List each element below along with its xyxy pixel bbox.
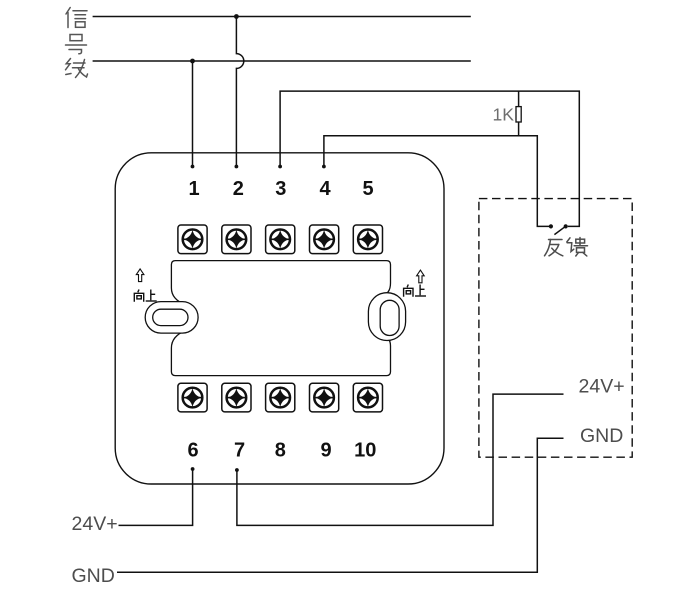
- svg-text:10: 10: [354, 440, 376, 462]
- junction S1/terminal2: [234, 14, 239, 19]
- svg-text:3: 3: [275, 178, 286, 200]
- svg-text:1K: 1K: [493, 104, 515, 124]
- switch contact left: [549, 224, 553, 228]
- wire signal line S2: [93, 60, 471, 62]
- terminal screw 9: [310, 383, 339, 412]
- terminal screw 5: [353, 225, 382, 254]
- terminal screw 3: [266, 225, 295, 254]
- terminal screw 7: [222, 383, 251, 412]
- terminal screw 4: [310, 225, 339, 254]
- label 反: [545, 240, 563, 256]
- dashed enclosure (monitored device): [479, 199, 632, 458]
- label 向上 (left): [134, 290, 156, 302]
- svg-text:7: 7: [234, 440, 245, 462]
- arrow up (right): [417, 270, 425, 283]
- svg-text:6: 6: [187, 440, 198, 462]
- module outline: [115, 153, 444, 484]
- svg-text:9: 9: [320, 440, 331, 462]
- mounting plate outline (top part): [171, 261, 390, 288]
- label 信 (signal): [66, 8, 87, 28]
- svg-text:24V+: 24V+: [72, 513, 118, 535]
- terminal screw 1: [178, 225, 207, 254]
- svg-text:5: 5: [362, 178, 373, 200]
- wire terminal3 to switch right: [280, 91, 579, 226]
- arrow up (left): [136, 269, 144, 282]
- switch blade: [554, 227, 564, 234]
- mounting slot right (inner): [380, 300, 399, 335]
- label 馈: [567, 238, 588, 257]
- svg-text:GND: GND: [72, 565, 115, 587]
- wire terminal2 to S1 (hop over S2): [236, 17, 243, 167]
- svg-text:8: 8: [275, 440, 286, 462]
- mounting slot right (outer): [368, 293, 405, 341]
- svg-text:24V+: 24V+: [579, 375, 625, 397]
- mounting slot left (outer): [145, 302, 198, 334]
- svg-text:1: 1: [188, 178, 199, 200]
- resistor R 1K: [518, 91, 520, 107]
- terminal screw 8: [266, 383, 295, 412]
- terminal screw 6: [178, 383, 207, 412]
- label 向上 (right): [404, 285, 426, 297]
- wire terminal1 to S2: [192, 61, 194, 167]
- wire terminal4 to switch left: [324, 136, 549, 227]
- mounting plate outline (bottom part): [171, 346, 390, 376]
- plate S-curve joins right: [382, 283, 391, 297]
- svg-text:2: 2: [233, 178, 244, 200]
- wire 24V+ (bottom) to terminal6: [119, 469, 193, 525]
- terminal screw 10: [353, 383, 382, 412]
- svg-text:4: 4: [319, 178, 331, 200]
- junction S2/terminal1: [190, 59, 195, 64]
- svg-text:GND: GND: [580, 425, 623, 447]
- mounting slot left (inner): [153, 309, 188, 325]
- label 线: [66, 59, 88, 78]
- wire GND stub to bottom GND: [117, 438, 564, 572]
- wire 24V+ stub to terminal7: [237, 394, 564, 525]
- switch contact right: [564, 224, 568, 228]
- wire signal line S1: [93, 16, 471, 18]
- label 号: [66, 35, 87, 54]
- plate S-curve joins left: [171, 288, 185, 305]
- terminal screw 2: [222, 225, 251, 254]
